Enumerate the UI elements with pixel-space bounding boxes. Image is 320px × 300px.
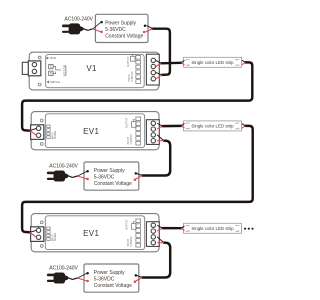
- svg-text:AC100-240V: AC100-240V: [64, 16, 93, 22]
- svg-text:Single color LED strip: Single color LED strip: [191, 124, 234, 129]
- svg-text:Constant Voltage: Constant Voltage: [105, 33, 143, 39]
- svg-text:Single color LED strip: Single color LED strip: [191, 60, 234, 65]
- svg-text:5-36VDC: 5-36VDC: [94, 277, 115, 283]
- svg-text:V1: V1: [86, 64, 97, 73]
- svg-text:OUTPUT: OUTPUT: [126, 117, 129, 128]
- svg-text:5-36VDC: 5-36VDC: [94, 175, 115, 181]
- svg-text:AC100-240V: AC100-240V: [49, 164, 78, 170]
- svg-text:AC100-240V: AC100-240V: [49, 266, 78, 272]
- svg-text:Constant Voltage: Constant Voltage: [94, 283, 132, 289]
- svg-text:5-36VDC: 5-36VDC: [131, 71, 134, 81]
- svg-text:RUN: RUN: [50, 56, 56, 60]
- svg-text:Single color LED strip: Single color LED strip: [191, 226, 234, 231]
- svg-text:Power Supply: Power Supply: [105, 20, 136, 26]
- svg-text:MATCH: MATCH: [50, 80, 59, 84]
- svg-text:5-36VDC: 5-36VDC: [105, 27, 126, 33]
- svg-text:SIGNAL: SIGNAL: [54, 130, 57, 139]
- svg-text:EV1: EV1: [83, 229, 99, 238]
- svg-text:Power Supply: Power Supply: [94, 168, 125, 174]
- svg-text:OUTPUT: OUTPUT: [126, 219, 129, 230]
- svg-text:5-36VDC: 5-36VDC: [130, 236, 133, 246]
- svg-text:EV1: EV1: [83, 127, 99, 136]
- svg-text:Power Supply: Power Supply: [94, 270, 125, 276]
- svg-text:Constant Voltage: Constant Voltage: [94, 181, 132, 187]
- svg-text:5-36VDC: 5-36VDC: [130, 134, 133, 144]
- svg-text:SIGNAL: SIGNAL: [54, 232, 57, 241]
- svg-text:OUTPUT: OUTPUT: [127, 56, 130, 67]
